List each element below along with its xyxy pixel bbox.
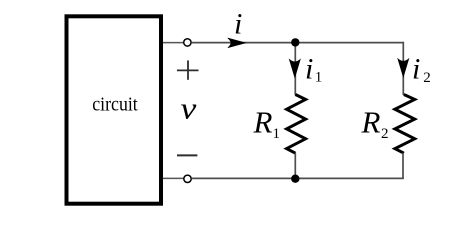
svg-text:circuit: circuit	[92, 94, 138, 116]
node junction bottom (dot)	[291, 175, 299, 183]
bottom terminal (open circle)	[184, 175, 191, 182]
minus sign (voltage polarity)	[177, 154, 197, 156]
top terminal (open circle)	[184, 39, 191, 46]
wire box to top terminal	[163, 42, 184, 44]
wire R2 branch top	[402, 42, 404, 95]
svg-text:2: 2	[423, 70, 431, 86]
current arrow i	[228, 38, 246, 48]
wire R2 branch bottom	[402, 153, 404, 179]
circuit box (source block)	[67, 16, 162, 203]
current arrow i1	[289, 59, 300, 77]
svg-text:1: 1	[273, 126, 281, 142]
resistor R1 zigzag	[287, 95, 306, 154]
plus sign (voltage polarity)	[177, 60, 199, 79]
resistor R2 zigzag	[395, 95, 415, 154]
svg-text:R: R	[253, 105, 273, 140]
svg-text:2: 2	[381, 126, 389, 142]
wire bottom node	[191, 177, 403, 179]
svg-text:v: v	[181, 91, 197, 126]
node junction top (dot)	[291, 38, 299, 46]
wire top node	[191, 42, 404, 44]
wire R1 branch top	[294, 42, 296, 95]
svg-text:R: R	[361, 105, 381, 140]
svg-text:i: i	[234, 8, 242, 41]
svg-text:i: i	[305, 52, 313, 85]
svg-text:1: 1	[315, 69, 323, 85]
wire box to bottom terminal	[163, 177, 184, 179]
svg-text:i: i	[412, 52, 420, 85]
wire R1 branch bottom	[294, 153, 296, 179]
current arrow i2	[398, 59, 409, 77]
